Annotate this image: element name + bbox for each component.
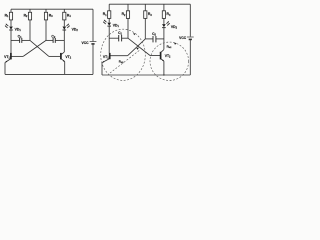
svg-text:VT2: VT2 xyxy=(65,55,71,60)
wire: VT1 emitter down to bottom rail (right) xyxy=(101,63,103,76)
transistor VT1 xyxy=(4,53,23,63)
wire: R4 branch stub from top rail xyxy=(63,9,65,12)
capacitor C2 (right) xyxy=(145,32,164,42)
wire: cross diagonal C2/R3 junction to VT1 base (right) xyxy=(128,39,146,56)
wire: R4 to VD2 (right) xyxy=(163,18,165,24)
svg-text:VD2: VD2 xyxy=(72,27,79,32)
LED VD1 (right) xyxy=(103,20,120,28)
resistor R3 (right) xyxy=(144,11,147,19)
svg-text:R1: R1 xyxy=(103,12,107,17)
wire: VD2 to VT2 collector branch xyxy=(63,30,65,52)
wire: battery to bottom rail xyxy=(92,44,94,75)
wire: left circuit bottom rail xyxy=(5,73,93,75)
svg-text:VCC: VCC xyxy=(82,41,90,45)
wire: left circuit top VCC rail xyxy=(11,8,93,10)
svg-text:VT1: VT1 xyxy=(103,55,109,60)
wire: right R3 branch stub xyxy=(144,4,146,11)
wire: R1 to VD1 xyxy=(10,20,12,26)
wire: VD1 to VT1 collector (right) xyxy=(108,26,110,53)
svg-text:C2: C2 xyxy=(51,34,55,39)
capacitor C1 xyxy=(11,34,30,43)
transistor VT2 (right) xyxy=(150,50,171,62)
junction: VT2 emitter / ground rail xyxy=(163,74,164,75)
wire: R2 down to C1 junction (right) xyxy=(127,18,129,38)
wire: VT2 emitter down to bottom rail (right) xyxy=(163,61,165,75)
wire: R4 to VD2 xyxy=(63,20,65,26)
svg-text:C1: C1 xyxy=(118,31,122,36)
resistor R1 xyxy=(9,12,12,20)
svg-text:R3: R3 xyxy=(148,12,152,17)
wire: R3 down to C2 junction xyxy=(45,20,47,41)
resistor R4 xyxy=(63,12,66,20)
wire: battery branch from top rail xyxy=(92,9,94,41)
dashed current loop around C2/VT2 (right circuit) xyxy=(150,42,189,80)
LED VD2 (right) xyxy=(162,21,178,29)
wire: R2 branch stub from top rail xyxy=(29,9,31,12)
svg-text:VD2: VD2 xyxy=(171,25,178,30)
svg-text:VT2: VT2 xyxy=(165,54,171,59)
wire: VD2 to VT2 collector branch (right) xyxy=(163,28,165,50)
svg-text:VD1: VD1 xyxy=(15,27,22,32)
svg-text:R2: R2 xyxy=(24,14,28,19)
dashed current loop around C1/VT1 (right circuit) xyxy=(101,29,146,80)
LED VD2 xyxy=(63,24,79,32)
battery VCC (left circuit) xyxy=(82,41,97,45)
resistor R2 (right) xyxy=(126,11,129,19)
wire: right R4 branch stub xyxy=(163,4,165,11)
wire: R1 branch stub from top rail xyxy=(10,9,12,12)
wire: right circuit top VCC rail xyxy=(109,3,190,5)
wire: right R2 branch stub xyxy=(127,4,129,11)
svg-text:R4: R4 xyxy=(67,14,71,19)
svg-text:R2: R2 xyxy=(122,12,126,17)
svg-text:R4: R4 xyxy=(167,12,171,17)
resistor R4 (right) xyxy=(162,11,165,19)
svg-text:C2: C2 xyxy=(152,32,156,37)
wire: battery to bottom rail (right) xyxy=(189,39,191,75)
svg-text:C1: C1 xyxy=(18,34,22,39)
capacitor C1 (right) xyxy=(109,31,128,41)
LED VD1 xyxy=(5,24,22,32)
svg-text:VT1: VT1 xyxy=(4,55,10,60)
wire: cross diagonal C1/R2 junction to VT2 base (right) xyxy=(128,38,150,55)
wire: R3 down to C2 junction (right) xyxy=(144,18,146,39)
capacitor C2 xyxy=(46,34,64,43)
wire: R2 down to C1 junction xyxy=(29,20,31,41)
wire: right R1 branch stub xyxy=(108,4,110,11)
resistor R3 xyxy=(44,12,47,20)
wire: VT2 emitter down to bottom rail xyxy=(64,62,66,75)
transistor VT1 (right) xyxy=(102,53,128,63)
wire: cross diagonal C1/R2 junction to VT2 base xyxy=(30,40,49,56)
wire: battery branch from top rail (right) xyxy=(189,4,191,36)
resistor R2 xyxy=(28,12,31,20)
resistor R1 (right) xyxy=(108,11,111,19)
svg-text:R3: R3 xyxy=(49,14,53,19)
wire: R1 to VD1 (right) xyxy=(108,18,110,22)
svg-text:R1: R1 xyxy=(5,14,9,19)
wire: VD1 to VT1 collector xyxy=(10,30,12,53)
wire: VT1 emitter down to bottom rail xyxy=(4,62,6,74)
svg-text:VCC: VCC xyxy=(179,36,187,40)
svg-text:VD1: VD1 xyxy=(113,24,120,29)
wire: R3 branch stub from top rail xyxy=(45,9,47,12)
battery VCC (right circuit) xyxy=(179,36,194,40)
transistor VT2 xyxy=(49,52,72,62)
wire: cross diagonal C2/R3 junction to VT1 base xyxy=(23,40,46,56)
wire: right circuit bottom rail xyxy=(102,74,190,76)
